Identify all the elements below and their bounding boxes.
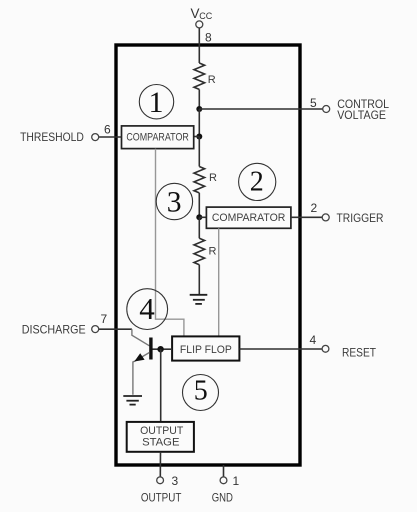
circled number 3 (156, 183, 192, 219)
svg-text:DISCHARGE: DISCHARGE (22, 323, 86, 337)
svg-text:GND: GND (212, 491, 233, 505)
wire node A to pin 5 (199, 108, 322, 110)
svg-text:8: 8 (205, 31, 212, 45)
node D junction dot (157, 346, 163, 352)
svg-text:7: 7 (101, 312, 108, 326)
circled number 1 (139, 85, 173, 119)
node C junction dot (196, 214, 202, 220)
pin 7 wire (98, 328, 132, 330)
output stage box (127, 422, 194, 452)
wire R2 to node C (198, 193, 200, 217)
wire pin 1 stub (223, 465, 225, 477)
svg-text:V: V (191, 6, 200, 21)
wire comparator U2 output to flip flop (218, 228, 220, 336)
pin 6 wire (98, 136, 122, 138)
transistor Q1 emitter arrow (134, 353, 144, 361)
svg-text:R: R (209, 246, 217, 258)
wire node D to output stage (160, 349, 162, 422)
pin 6 terminal circle (92, 134, 99, 141)
wire node C to R3 (198, 217, 200, 238)
svg-text:CC: CC (199, 11, 212, 21)
wire flip flop to transistor base (153, 348, 173, 350)
svg-text:3: 3 (172, 474, 179, 488)
svg-text:3: 3 (167, 187, 182, 219)
svg-text:COMPARATOR: COMPARATOR (212, 212, 286, 224)
svg-text:1: 1 (149, 86, 164, 119)
wire R1 to node A (198, 89, 200, 109)
Vcc label (191, 6, 213, 21)
svg-text:2: 2 (311, 201, 318, 215)
wire comparator U1 output to flip flop (156, 149, 184, 337)
circled number 5 (183, 375, 219, 411)
pin 7 terminal circle (92, 326, 99, 333)
svg-text:5: 5 (310, 96, 317, 110)
svg-text:R: R (209, 172, 217, 184)
resistor R3 (194, 238, 205, 264)
svg-text:FLIP FLOP: FLIP FLOP (180, 344, 232, 356)
pin 4 wire (239, 348, 322, 350)
flip flop box (172, 336, 239, 360)
ground (voltage divider) (190, 295, 208, 304)
node B junction dot (196, 134, 202, 140)
transistor Q1 collector wire (132, 329, 150, 346)
pin 4 terminal circle (322, 345, 329, 352)
svg-text:6: 6 (104, 123, 111, 137)
resistor R2 (194, 167, 205, 193)
svg-text:COMPARATOR: COMPARATOR (126, 132, 189, 144)
transistor Q1 emitter wire (133, 353, 150, 395)
comparator U2 (trigger) box (206, 207, 291, 228)
svg-text:1: 1 (233, 474, 240, 488)
svg-text:4: 4 (310, 333, 317, 347)
comparator U1 (threshold) box (122, 126, 194, 149)
pin 5 terminal circle (323, 106, 330, 113)
svg-text:5: 5 (194, 376, 208, 407)
pin 2 terminal circle (322, 214, 329, 221)
svg-text:OUTPUT: OUTPUT (141, 491, 182, 505)
circled number 4 (127, 289, 168, 330)
wire node C to comparator 2 input (199, 216, 206, 218)
transistor Q1 base bar (149, 338, 152, 360)
wire Vcc to R1 (198, 28, 200, 63)
resistor R1 (194, 63, 205, 89)
svg-text:STAGE: STAGE (142, 437, 179, 449)
svg-text:2: 2 (250, 167, 264, 198)
wire node B to comparator U1 input (194, 136, 200, 138)
node A junction dot (196, 106, 202, 112)
pin 2 wire (291, 216, 322, 218)
svg-text:THRESHOLD: THRESHOLD (20, 130, 84, 144)
wire node B to R2 (198, 137, 200, 167)
svg-text:R: R (208, 74, 216, 86)
svg-text:4: 4 (139, 291, 155, 326)
pin 8 terminal circle (196, 21, 203, 28)
IC package box U1 (116, 45, 300, 465)
wire R3 to ground (198, 265, 200, 295)
wire output stage to pin 3 (159, 452, 161, 477)
pin 3 terminal circle (157, 477, 164, 484)
svg-text:OUTPUT: OUTPUT (140, 425, 183, 437)
ground (emitter) (123, 396, 142, 405)
svg-text:RESET: RESET (342, 346, 377, 360)
circled number 2 (239, 163, 276, 200)
svg-text:TRIGGER: TRIGGER (337, 211, 384, 225)
pin 1 terminal circle (220, 477, 227, 484)
svg-text:VOLTAGE: VOLTAGE (337, 108, 386, 122)
wire node A to node B (198, 109, 200, 137)
